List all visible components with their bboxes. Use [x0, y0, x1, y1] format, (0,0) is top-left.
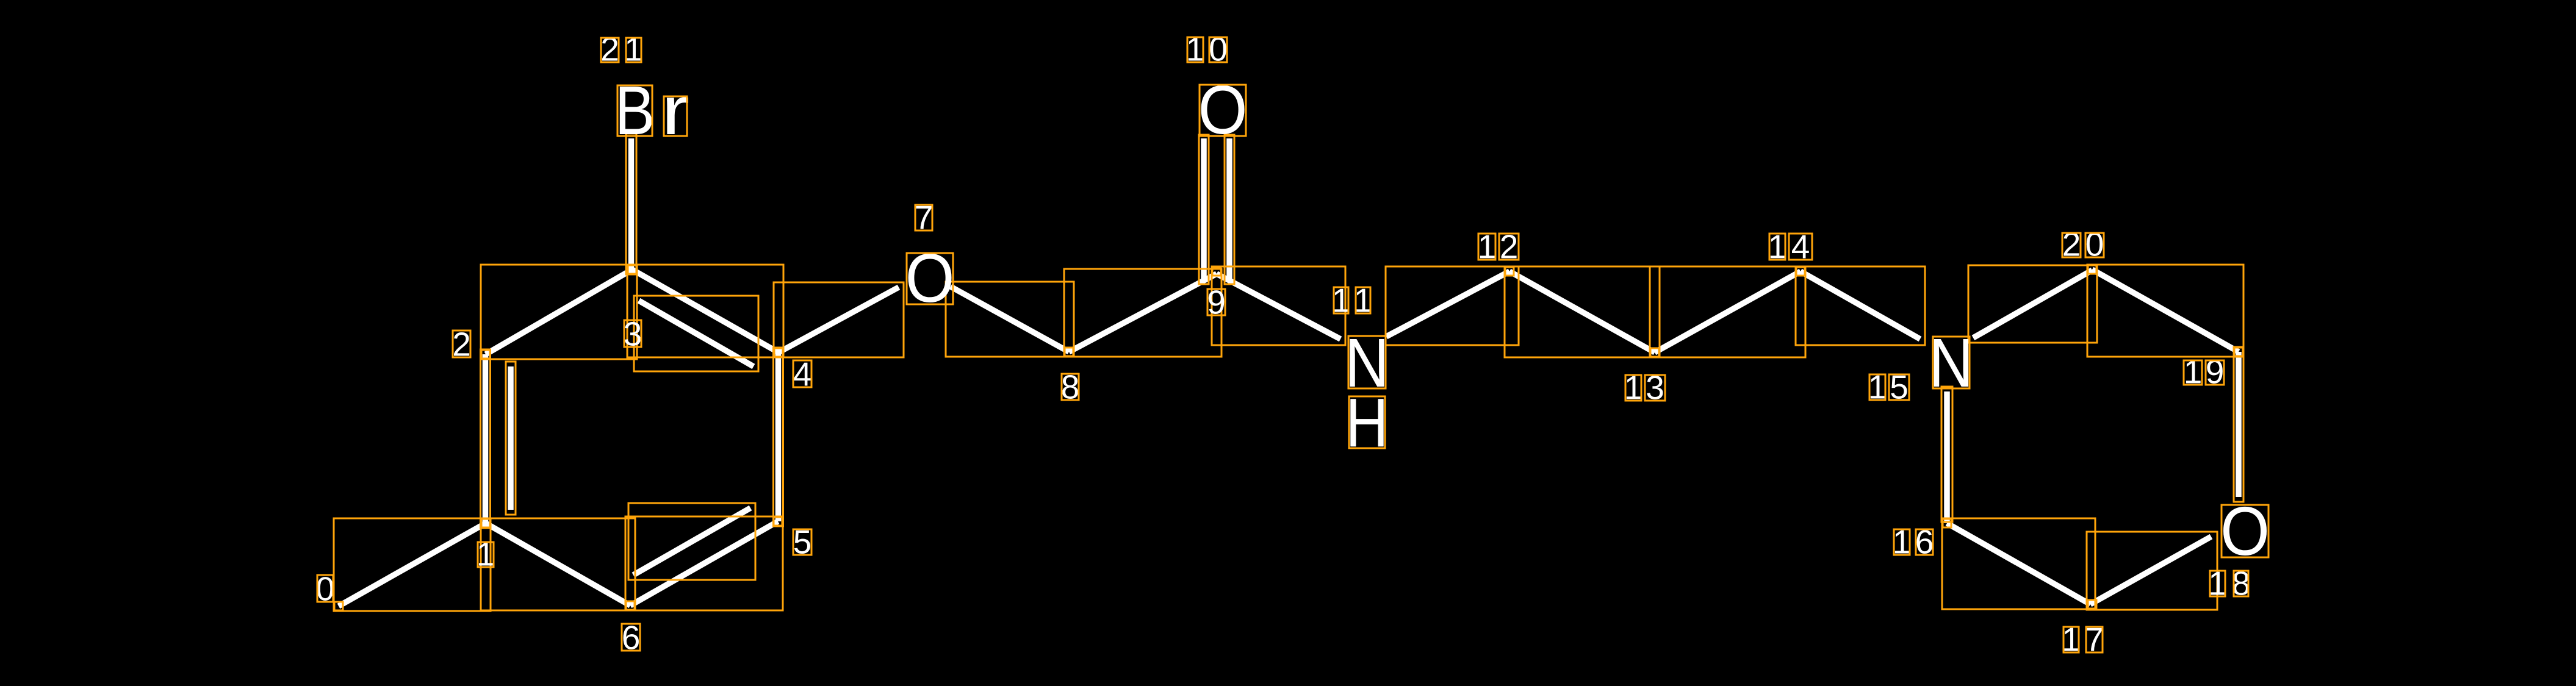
box of atom C3: [628, 265, 636, 274]
box of bond C8-C9: [1064, 269, 1221, 357]
box of index label 4 char 0: [793, 360, 811, 387]
box of atom C9: [1212, 267, 1221, 276]
box of index label 8 char 0: [1062, 374, 1079, 400]
box of bond C3-C4 main: [627, 265, 783, 357]
box of bond C14-N15: [1796, 266, 1925, 345]
bond N11-C12: [1386, 271, 1509, 337]
box of atom C4: [774, 348, 783, 357]
box of bond C17-C16: [1942, 518, 2095, 609]
box of index label 20 char 1: [2085, 233, 2104, 257]
box of index label 13 char 0: [1625, 375, 1641, 401]
box of atom O18 label: [2222, 505, 2268, 557]
box of atom C5: [774, 517, 782, 526]
bond O7-C8: [951, 287, 1069, 352]
box of index label 1 char 0: [478, 542, 494, 567]
box of index label 10 char 1: [1209, 37, 1227, 62]
box of atom C13: [1650, 348, 1659, 357]
box of bond C1-C2 inner: [506, 362, 516, 515]
bond C12-C13: [1509, 271, 1655, 352]
box of index label 19 char 0: [2184, 360, 2202, 385]
box of index label 14 char 1: [1789, 234, 1812, 260]
box of bond C9=O10 left: [1199, 135, 1209, 284]
box of bond C5-C6 main: [625, 516, 783, 610]
bond C13-C14: [1655, 271, 1801, 352]
box of index label 11 char 0: [1334, 287, 1348, 313]
box of index label 6 char 0: [622, 624, 640, 651]
bond C4-C5: [775, 352, 782, 521]
box of bond C20-C19: [2087, 265, 2243, 357]
box of bond C19-O18: [2234, 347, 2243, 502]
box of index label 21 char 0: [601, 38, 619, 62]
box of atom C6: [626, 601, 635, 610]
box of index label 18 char 0: [2210, 571, 2225, 596]
box of atom C12: [1505, 267, 1514, 276]
box of bond C6-C1: [481, 518, 635, 610]
box of atom O10 label: [1200, 85, 1246, 136]
svg-text:B: B: [615, 73, 655, 149]
bond C5-C6 main: [630, 521, 778, 606]
box of atom C16: [1943, 519, 1951, 527]
box of bond C12-C13: [1505, 266, 1660, 357]
box of atom C1: [481, 519, 490, 527]
box of index label 17 char 0: [2063, 627, 2079, 652]
box of index label 20 char 0: [2062, 233, 2081, 257]
box of bond C13-C14: [1650, 266, 1805, 357]
bond C3-Br21: [628, 138, 635, 270]
box of atom Br21 label r: [664, 96, 687, 136]
box of atom C14: [1796, 267, 1805, 276]
box of bond C16-N15: [1941, 387, 1952, 522]
box of bond C4-C5: [774, 348, 783, 526]
box of index label 11 char 1: [1356, 287, 1370, 313]
bond C3-C4 inner: [639, 301, 754, 366]
box of atom C20: [2088, 265, 2096, 274]
bond C9-N11: [1217, 274, 1340, 339]
box of index label 17 char 1: [2086, 627, 2103, 652]
box of atom C8: [1065, 348, 1073, 356]
bond C19-O18: [2236, 352, 2242, 497]
box of bond C5-C6 inner: [628, 503, 755, 580]
box of index label 14 char 0: [1769, 234, 1785, 260]
box of bond C3-C4 inner: [634, 296, 758, 371]
bond C14-N15: [1801, 271, 1920, 339]
box of index label 10 char 0: [1187, 37, 1203, 62]
box of bond O18-C17: [2087, 532, 2217, 610]
box of atom N15 label: [1933, 337, 1970, 388]
box of index label 7 char 0: [915, 205, 932, 230]
box of index label 15 char 1: [1889, 374, 1909, 400]
box of index label 18 char 1: [2234, 571, 2248, 596]
box of bond C3-Br21: [626, 134, 636, 274]
bond C8-C9: [1069, 274, 1217, 352]
box of index label 2 char 0: [453, 330, 470, 357]
svg-text:O: O: [1198, 72, 1248, 149]
box of atom O7 label: [907, 253, 953, 304]
bond C17-C16: [1947, 523, 2090, 604]
box of index label 5 char 0: [793, 529, 811, 555]
box of atom C19: [2234, 348, 2243, 356]
box of bond C0-C1: [334, 518, 491, 611]
svg-text:O: O: [905, 240, 955, 317]
box of bond C9=O10 right: [1225, 135, 1234, 284]
box of bond N15-C20: [1968, 265, 2097, 343]
bond C16-N15: [1944, 391, 1950, 523]
box of index label 19 char 1: [2206, 360, 2224, 385]
bond C20-C19: [2092, 270, 2239, 352]
bond C9=O10 right: [1226, 138, 1232, 279]
bond C0-C1: [339, 523, 486, 606]
svg-text:r: r: [661, 72, 690, 149]
box of bond C4-O7: [774, 282, 904, 357]
box of index label 13 char 1: [1645, 375, 1665, 401]
box of bond O7-C8: [946, 282, 1074, 357]
bond C2-C3: [486, 270, 632, 354]
box of bond N11-C12: [1386, 266, 1519, 345]
box of index label 3 char 0: [624, 320, 641, 347]
box of atom N11 label N: [1348, 336, 1386, 388]
bond C9=O10 left: [1201, 138, 1207, 279]
box of atom C0: [334, 602, 343, 610]
box of index label 0 char 0: [317, 575, 333, 602]
box of index label 16 char 1: [1916, 529, 1933, 555]
bond N15-C20: [1973, 270, 2092, 338]
bond C6-C1: [486, 523, 630, 606]
box of bond C9-N11: [1212, 266, 1345, 345]
box of index label 12 char 1: [1499, 234, 1519, 260]
box of index label 16 char 0: [1894, 529, 1910, 555]
bond C1-C2 inner: [508, 366, 514, 510]
bond C3-C4 main: [632, 270, 779, 352]
box of bond C2-C3: [481, 265, 637, 359]
box of index label 12 char 0: [1478, 234, 1495, 260]
box of index label 15 char 0: [1869, 374, 1885, 400]
bond O18-C17: [2090, 537, 2211, 604]
bond C4-O7: [779, 287, 899, 352]
box of atom C17: [2088, 600, 2096, 609]
bond C5-C6 inner: [633, 508, 750, 575]
box of atom C2: [481, 350, 490, 359]
bond C1-C2 main: [483, 354, 489, 523]
box of bond C1-C2 main: [481, 349, 491, 528]
box of atom Br21 label B: [617, 85, 652, 136]
box of index label 9 char 0: [1207, 289, 1225, 315]
box of atom N11 label H: [1349, 396, 1385, 448]
box of index label 21 char 1: [626, 38, 641, 62]
